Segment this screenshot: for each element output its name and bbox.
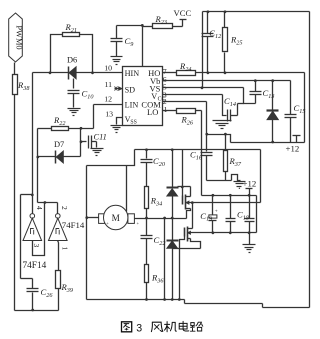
svg-text:1: 1 [164, 105, 168, 114]
svg-text:M: M [112, 213, 120, 223]
svg-text:D6: D6 [67, 56, 77, 65]
svg-text:+: + [215, 208, 218, 214]
svg-text:LIN: LIN [125, 101, 139, 110]
svg-text:+12: +12 [286, 144, 300, 154]
svg-text:PWM0: PWM0 [15, 25, 24, 49]
svg-text:HIN: HIN [125, 69, 140, 78]
svg-text:12: 12 [104, 94, 112, 103]
svg-text:1: 1 [61, 247, 70, 251]
svg-text:3: 3 [136, 322, 142, 334]
svg-text:C11: C11 [94, 133, 107, 142]
svg-text:13: 13 [105, 110, 113, 119]
svg-text:11: 11 [104, 80, 112, 89]
svg-text:4: 4 [35, 206, 44, 210]
svg-text:10: 10 [104, 64, 112, 73]
svg-text:3: 3 [32, 244, 41, 248]
svg-text:LO: LO [147, 107, 158, 117]
svg-text:2: 2 [60, 206, 69, 210]
svg-text:SS: SS [130, 120, 136, 126]
svg-text:VCC: VCC [174, 8, 192, 18]
svg-text:+12: +12 [243, 179, 257, 189]
svg-text:D7: D7 [54, 140, 64, 149]
svg-text:74F14: 74F14 [62, 220, 85, 230]
svg-text:+: + [106, 221, 109, 226]
svg-text:SD: SD [125, 85, 136, 94]
svg-text:74F14: 74F14 [23, 261, 47, 271]
